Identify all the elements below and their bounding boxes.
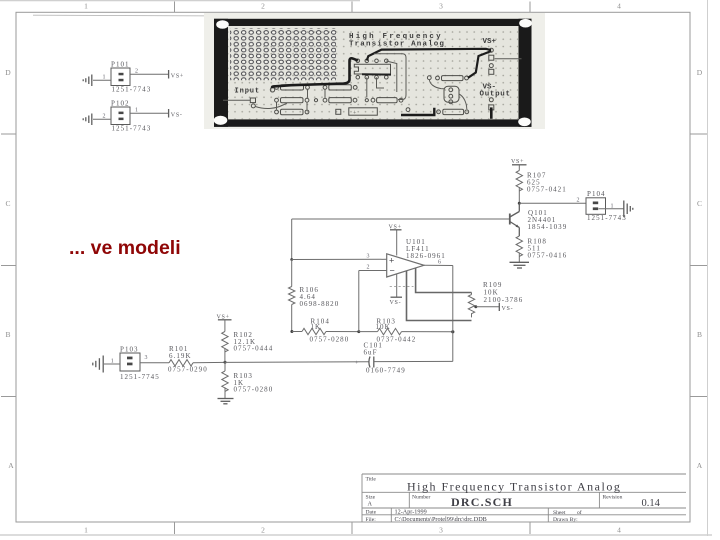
wire output branch vertical — [452, 266, 454, 362]
title block — [362, 474, 686, 522]
resistor R104 — [302, 328, 326, 334]
wire inverting node to R103 — [359, 331, 378, 333]
svg-text:1: 1 — [111, 358, 114, 364]
wire P101 pin2 to VS+ — [130, 73, 168, 75]
svg-text:1: 1 — [135, 108, 138, 114]
svg-text:3: 3 — [145, 355, 148, 361]
svg-text:VS+: VS+ — [511, 159, 524, 165]
wire R103 to ground — [224, 387, 226, 398]
svg-text:P101: P101 — [111, 61, 130, 69]
svg-text:VS-: VS- — [171, 112, 183, 118]
svg-text:2: 2 — [261, 2, 265, 11]
node collector junction — [518, 202, 521, 205]
svg-text:1251-7745: 1251-7745 — [120, 373, 160, 381]
svg-text:of: of — [577, 509, 582, 516]
wire U101 pin5 to R109 top — [416, 268, 472, 293]
power port VS+ (P101) — [169, 70, 184, 79]
svg-text:4: 4 — [617, 526, 621, 535]
wire P102 pin2 to ground — [93, 118, 111, 120]
power port VS- (R109) — [499, 303, 513, 312]
power port VS+ (R107) — [511, 159, 527, 165]
R107 labels — [527, 172, 567, 194]
R104 labels — [310, 318, 350, 344]
svg-text:1251-7743: 1251-7743 — [112, 125, 152, 133]
svg-text:P103: P103 — [120, 346, 139, 354]
R103 10K labels — [376, 318, 417, 344]
svg-text:A: A — [697, 461, 703, 470]
svg-text:0757-0444: 0757-0444 — [234, 345, 274, 353]
wire node to R103 — [224, 362, 226, 371]
offset null dashed line — [390, 286, 414, 288]
node output junction — [451, 330, 454, 333]
ground (P101) — [83, 75, 92, 87]
resistor R109 (trimmer) — [468, 293, 474, 318]
transistor Q101 — [510, 203, 520, 236]
PCB IC footprint U1 — [354, 59, 391, 79]
ground (P103) — [93, 356, 103, 373]
svg-text:B: B — [5, 330, 10, 339]
svg-text:2: 2 — [135, 69, 138, 75]
PCB photo — [204, 13, 545, 129]
wire R108 to ground — [518, 252, 520, 262]
svg-text:Number: Number — [412, 494, 430, 500]
node divider junction — [224, 361, 227, 364]
power port VS- (U101 pin4) — [390, 275, 403, 307]
wire U101 pin1 to R109 bottom — [407, 271, 472, 321]
wire inverting node up to pin2 — [358, 271, 360, 332]
ground (P102) — [83, 114, 92, 126]
svg-text:1251-7743: 1251-7743 — [112, 86, 152, 94]
node R106/R104 junction — [290, 330, 293, 333]
wire VS+ to R102 — [224, 320, 226, 332]
wire node to R104 — [292, 331, 302, 333]
svg-text:1: 1 — [611, 203, 614, 209]
node inverting junction — [357, 330, 360, 333]
resistor R108 — [516, 236, 522, 256]
PCB thin traces — [223, 54, 522, 110]
wire P101 pin1 to ground — [93, 79, 111, 81]
wire R104 to inverting node — [326, 331, 359, 333]
PCB thick traces — [272, 49, 491, 119]
wire P102 pin1 to VS- — [130, 112, 168, 114]
svg-text:6: 6 — [438, 259, 441, 265]
resistor R106 — [289, 287, 295, 305]
svg-text:File:: File: — [366, 517, 377, 523]
svg-text:6.19K: 6.19K — [169, 352, 192, 360]
svg-text:Revision: Revision — [603, 494, 623, 500]
svg-text:0.14: 0.14 — [642, 498, 661, 509]
connector P103 — [120, 353, 140, 371]
wire R102 to node — [224, 348, 226, 363]
wire collector to P104 — [519, 202, 586, 204]
svg-text:P104: P104 — [587, 190, 606, 198]
R106 labels — [300, 286, 340, 308]
svg-text:2: 2 — [103, 114, 106, 120]
wire C101 to output branch — [374, 360, 453, 362]
wire R106 to R104 node — [291, 305, 293, 332]
U101 labels — [406, 238, 446, 260]
svg-text:0757-0280: 0757-0280 — [234, 386, 274, 394]
wire top feedback rail to Q101 base — [292, 218, 510, 220]
PCB silkscreen text — [235, 33, 511, 99]
svg-text:0757-0421: 0757-0421 — [527, 186, 567, 194]
svg-text:... ve modeli: ... ve modeli — [69, 237, 181, 259]
svg-text:3: 3 — [439, 526, 443, 535]
svg-text:0160-7749: 0160-7749 — [366, 367, 406, 375]
node pin3 junction — [290, 258, 293, 261]
wire P103 pin1 to ground — [104, 363, 120, 365]
connector P104 — [586, 198, 606, 215]
wire rail down to pin3 node — [291, 219, 293, 260]
svg-text:2100-3786: 2100-3786 — [484, 296, 524, 304]
svg-text:2: 2 — [367, 264, 370, 270]
svg-text:0757-0280: 0757-0280 — [310, 336, 350, 344]
resistor R102 — [222, 332, 228, 352]
svg-text:2: 2 — [261, 526, 265, 535]
svg-text:C: C — [697, 199, 702, 208]
svg-text:3: 3 — [439, 2, 443, 11]
svg-text:VS+: VS+ — [217, 314, 230, 320]
svg-text:0757-0416: 0757-0416 — [528, 252, 568, 260]
svg-text:10K: 10K — [376, 323, 391, 331]
wire VS+ to R107 — [518, 165, 520, 171]
wire pin3 node to op-amp — [292, 258, 387, 260]
svg-text:1854-1039: 1854-1039 — [528, 223, 568, 231]
svg-text:DRC.SCH: DRC.SCH — [451, 495, 513, 509]
svg-text:High Frequency Transistor Anal: High Frequency Transistor Analog — [407, 480, 621, 494]
svg-text:0698-8820: 0698-8820 — [300, 300, 340, 308]
power port VS+ (U101 pin7) — [389, 225, 402, 256]
svg-text:3: 3 — [367, 254, 370, 260]
power port VS- (P102) — [169, 109, 183, 118]
svg-text:12-Apr-1999: 12-Apr-1999 — [395, 509, 427, 516]
R109 wiper node — [474, 305, 477, 308]
resistor R101 — [169, 360, 193, 366]
wire R101 to divider node — [193, 361, 225, 363]
svg-text:VS-: VS- — [502, 306, 514, 312]
svg-text:Output: Output — [480, 91, 511, 99]
R102 labels — [234, 331, 274, 353]
svg-text:VS+: VS+ — [171, 73, 184, 79]
wire R107 to collector node — [518, 187, 520, 203]
svg-text:P102: P102 — [111, 100, 130, 108]
svg-text:4: 4 — [617, 2, 621, 11]
ground (R108) — [510, 262, 530, 268]
svg-text:VS-: VS- — [390, 300, 402, 306]
svg-text:1: 1 — [84, 526, 88, 535]
svg-text:6uF: 6uF — [364, 349, 378, 357]
svg-text:A: A — [368, 501, 373, 508]
svg-text:VS+: VS+ — [483, 38, 497, 46]
svg-text:1: 1 — [84, 2, 88, 11]
Q101 labels — [528, 209, 568, 231]
capacitor C101 — [369, 357, 374, 368]
svg-text:1251-7743: 1251-7743 — [587, 214, 627, 222]
svg-text:Size: Size — [366, 494, 376, 500]
svg-text:0757-0290: 0757-0290 — [168, 366, 208, 374]
wire R109 wiper to VS- — [476, 306, 499, 308]
svg-text:C: C — [5, 199, 10, 208]
svg-text:Transistor Analog: Transistor Analog — [349, 41, 445, 49]
wire divider node to C101 — [225, 361, 369, 364]
R103 1K labels — [234, 372, 274, 394]
svg-text:D: D — [5, 68, 11, 77]
R108 labels — [528, 238, 568, 260]
svg-text:Date: Date — [366, 510, 377, 516]
connector P101 — [111, 68, 130, 86]
svg-text:+: + — [389, 256, 394, 266]
svg-text:A: A — [8, 461, 14, 470]
PCB pads VS+/Output — [250, 48, 493, 110]
svg-text:1: 1 — [103, 75, 106, 81]
svg-text:−: − — [390, 265, 395, 275]
op-amp U101 — [387, 254, 424, 277]
svg-text:Sheet: Sheet — [553, 510, 566, 516]
wire P103 pin3 to R101 — [140, 362, 169, 364]
R101 labels — [168, 345, 208, 374]
wire node down to R106 — [291, 260, 293, 287]
R109 labels — [483, 281, 523, 304]
svg-text:VS+: VS+ — [389, 225, 402, 231]
svg-text:D: D — [697, 68, 703, 77]
wire pin2 to op-amp — [359, 270, 387, 272]
resistor R107 — [516, 171, 522, 191]
svg-text:2: 2 — [577, 197, 580, 203]
svg-text:B: B — [697, 330, 702, 339]
resistor R103 (10K feedback) — [378, 328, 402, 334]
svg-text:1K: 1K — [311, 323, 322, 331]
svg-text:Drawn By:: Drawn By: — [553, 517, 578, 523]
svg-text:Input: Input — [235, 88, 261, 96]
wire R103 to output node — [402, 331, 453, 333]
wire P104 pin1 to ground — [599, 208, 624, 210]
resistor R103 (1K) — [222, 371, 228, 391]
svg-text:Title: Title — [366, 477, 377, 483]
power port VS+ (R102) — [217, 314, 232, 320]
C101 labels — [364, 342, 406, 375]
wire U101 output pin6 — [424, 264, 453, 266]
ground (P104) — [624, 201, 633, 218]
svg-text:C:\Documents\Protel99\drc\drc.: C:\Documents\Protel99\drc\drc.DDB — [395, 516, 487, 523]
PCB resistor footprints — [270, 76, 468, 117]
ground (R103) — [218, 399, 234, 404]
connector P102 — [111, 107, 130, 125]
